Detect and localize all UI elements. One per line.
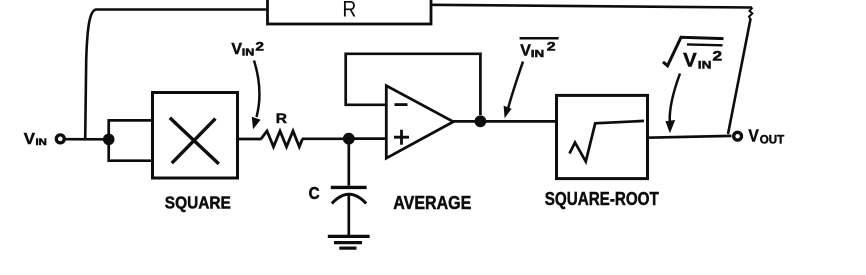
svg-text:AVERAGE: AVERAGE (393, 193, 471, 214)
VIN label (24, 131, 47, 148)
wire: node down to capacitor (347, 139, 350, 186)
wire: capacitor to ground (347, 195, 350, 236)
wire: SQUARE output to resistor R (238, 138, 262, 141)
resistor R (averaging) (261, 131, 303, 147)
wire: VIN terminal to junction (66, 138, 105, 141)
wire: SQUARE-ROOT output to VOUT terminal (648, 136, 732, 138)
op-amp U2 (386, 86, 453, 159)
svg-text:2: 2 (712, 49, 722, 64)
node label sqrt of averaged VIN^2 (683, 49, 722, 72)
resistor R1 feedback box (268, 0, 432, 24)
svg-text:SQUARE: SQUARE (165, 193, 231, 213)
node: averaging junction dot (343, 133, 355, 145)
capacitor C top plate (331, 186, 367, 189)
wire: multiplier input bracket (107, 120, 152, 160)
square-root curve symbol (570, 121, 645, 162)
SQUARE block U1 (153, 93, 238, 179)
svg-text:IN: IN (36, 137, 48, 147)
capacitor C bottom plate (curved) (332, 194, 366, 203)
svg-text:V: V (231, 41, 242, 58)
wire: feedback R left to VIN node (85, 10, 267, 140)
svg-text:OUT: OUT (760, 133, 784, 146)
node: output junction dot (475, 115, 487, 127)
svg-text:IN: IN (242, 47, 255, 58)
svg-text:R: R (342, 0, 356, 22)
overbar inside radical (687, 43, 723, 46)
arrow: averaged VIN^2 to op-amp output wire (508, 62, 524, 112)
op-amp U2 feedback loop wire (346, 54, 481, 115)
ground (328, 236, 370, 248)
svg-text:IN: IN (698, 60, 712, 72)
wire: descent to VOUT (728, 19, 751, 135)
SQUARE-ROOT block U3 (557, 95, 648, 178)
arrow: sqrt label to VOUT wire (670, 74, 680, 123)
output terminal VOUT (734, 132, 742, 140)
svg-text:C: C (309, 183, 320, 203)
arrow: VIN^2 to node (254, 61, 259, 118)
svg-text:IN: IN (531, 49, 544, 60)
node label averaged VIN^2 (overbar) (520, 42, 555, 61)
wire: op-amp output to SQUARE-ROOT block (453, 120, 557, 123)
svg-text:V: V (683, 49, 697, 71)
op-amp plus input sign (394, 130, 409, 145)
op-amp minus input sign (395, 103, 408, 106)
svg-text:V: V (24, 131, 36, 148)
wire: node to op-amp + input (349, 137, 386, 140)
node: VIN junction dot (103, 134, 115, 146)
radical sign (663, 37, 724, 66)
wire corner squiggle (scan artifact) (749, 8, 753, 20)
svg-text:V: V (520, 43, 531, 60)
wire: resistor to averaging node (302, 137, 344, 140)
svg-text:R: R (276, 111, 287, 127)
node label VIN^2 (231, 41, 264, 58)
svg-text:2: 2 (255, 42, 264, 54)
wire: feedback R right to VOUT node (431, 5, 752, 8)
svg-text:SQUARE-ROOT: SQUARE-ROOT (545, 189, 659, 210)
svg-text:V: V (748, 125, 759, 145)
input terminal VIN (56, 135, 64, 143)
multiplier X symbol (170, 118, 219, 164)
svg-text:2: 2 (547, 42, 556, 54)
VOUT label (748, 125, 784, 146)
